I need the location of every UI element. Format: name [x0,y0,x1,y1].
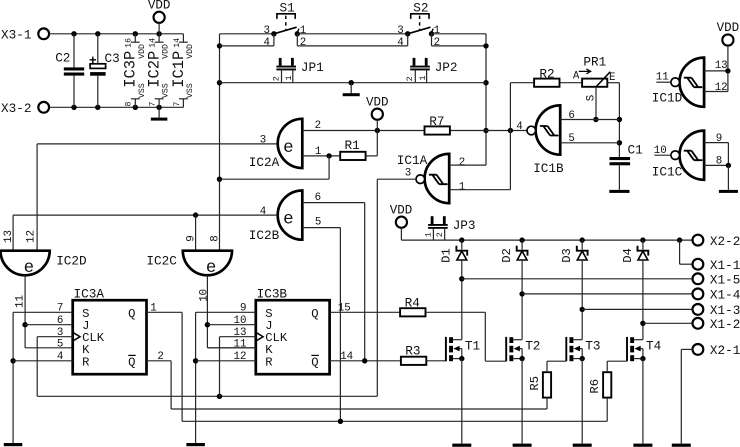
wire VDD rail top [49,33,183,35]
wire IC3B.Q row [330,311,400,313]
wire IC3A.CLK [37,337,377,397]
capacitor C2 [55,34,84,108]
svg-text:4: 4 [260,206,266,218]
svg-text:3: 3 [397,25,403,37]
flip-flop IC3A [57,287,164,375]
wire IC3B.J [208,324,256,326]
svg-text:3: 3 [405,167,411,179]
ground IC3A S/R net [4,443,23,446]
junction dot row421 [338,419,343,424]
ground below IC2P [151,107,168,120]
ground below IC1C [719,165,738,193]
svg-text:X1-2: X1-2 [710,317,740,332]
power VDD above JP3 [390,204,413,240]
svg-text:6: 6 [568,110,574,122]
junction dots row130 [375,128,514,133]
svg-text:R4: R4 [405,296,420,311]
svg-text:1: 1 [300,25,306,37]
wire IC3A.Qbar [147,361,547,409]
svg-text:A: A [573,70,580,82]
wire row1 right + column 486 [432,34,487,165]
svg-text:1: 1 [284,75,294,80]
transistor T4 [627,337,661,361]
switch S1 [264,0,307,49]
svg-text:IC2C: IC2C [146,253,177,268]
wire X1-1 drop [680,240,693,264]
svg-text:X2-1: X2-1 [710,343,740,358]
junction dots column 486 [483,43,488,133]
svg-text:2: 2 [435,232,445,237]
wire IC2C.9 down [195,215,197,267]
svg-text:7: 7 [149,102,158,107]
wire X1-2 row [640,321,692,326]
svg-text:e: e [283,138,294,158]
svg-text:IC1C: IC1C [652,165,683,180]
svg-text:1: 1 [434,25,440,37]
wire X1-5 row [459,276,692,281]
svg-text:IC2D: IC2D [56,253,86,268]
transistor T3 [566,337,600,361]
switch S2 [397,0,440,49]
svg-text:9: 9 [186,235,198,241]
svg-text:S2: S2 [413,0,428,15]
wire IC2A.1 row [302,155,340,157]
junction dots bottom rail [71,105,162,110]
jumper JP1 [271,58,323,83]
svg-text:IC2A: IC2A [249,155,280,170]
resistor R1 [340,138,365,160]
svg-text:X1-1: X1-1 [710,258,740,273]
wire T3 source gnd [573,359,592,447]
wire IC2D.11 out [22,275,72,348]
wire jumper row [220,82,487,84]
svg-text:8: 8 [210,235,222,241]
svg-text:4: 4 [397,37,403,49]
svg-text:IC2P: IC2P [146,51,164,88]
svg-text:T3: T3 [585,339,600,354]
terminal X2-2 [693,234,740,249]
nand IC1B [516,105,575,175]
svg-text:IC1A: IC1A [397,153,428,168]
svg-text:JP2: JP2 [435,60,458,75]
power pins IC2P [146,34,171,108]
svg-text:14: 14 [149,38,158,48]
wire IC1C.10 stub [654,154,670,156]
resistor R6 [588,361,627,421]
svg-text:VDD: VDD [366,95,389,109]
resistor R3 [401,344,426,365]
svg-text:VDD: VDD [148,0,171,13]
junction dots S1 column [217,43,222,182]
wire T1 source gnd [452,359,471,447]
svg-text:10: 10 [199,289,211,302]
ground IC3B S/R net [186,443,205,446]
svg-text:X1-4: X1-4 [710,288,740,303]
svg-text:R7: R7 [429,114,444,129]
svg-text:16: 16 [125,38,134,48]
wire X1-3 row [580,307,693,312]
wire IC3B.R [196,360,256,362]
transistor T2 [506,337,540,361]
resistor R5 [528,361,567,409]
wire IC2B.5 net [302,228,340,422]
terminal X1-4 [693,288,740,303]
svg-text:14: 14 [173,38,182,48]
svg-text:D4: D4 [621,248,635,263]
svg-text:X2-2: X2-2 [710,234,740,249]
wire T4 source gnd [633,359,652,447]
svg-text:IC1B: IC1B [533,161,564,176]
wire IC2C.10 out [205,275,256,348]
svg-text:2: 2 [300,37,306,49]
svg-text:C3: C3 [105,51,120,66]
svg-text:JP1: JP1 [301,60,324,75]
svg-text:D3: D3 [560,248,574,263]
diode D1 [440,240,467,340]
wire IC3B.K [207,347,255,349]
svg-text:R: R [265,355,272,369]
svg-text:11: 11 [234,339,247,351]
junction dot jumper row gnd [349,80,354,85]
nand IC2D [1,230,87,278]
svg-text:3: 3 [260,134,266,146]
nand IC2B [249,191,322,244]
diode D3 [560,240,588,340]
junction dots top rail [71,31,162,36]
ground at jumper row [343,83,360,97]
svg-text:T2: T2 [525,339,540,354]
svg-text:T4: T4 [646,339,661,354]
svg-text:S1: S1 [280,0,295,15]
junction dot R1 left [326,153,331,158]
junction dot CLK-B [217,394,222,399]
svg-text:e: e [24,258,35,278]
terminal X1-5 [693,273,740,288]
svg-text:3: 3 [264,25,270,37]
diode D4 [621,240,649,340]
svg-text:R3: R3 [405,344,420,359]
svg-text:12: 12 [25,230,37,243]
pin label IC2C.10 [199,289,211,302]
flip-flop IC3B [234,287,354,375]
wire IC2A out to left [37,143,278,145]
wire row2 segments [220,45,487,47]
junction dot IC2C.9 [193,212,198,217]
resistor R2 [510,67,582,87]
svg-text:R5: R5 [528,376,542,391]
wire PR1 E down [607,83,619,157]
wire T2 source gnd [513,359,532,447]
svg-text:2: 2 [434,37,440,49]
potentiometer PR1 [573,54,616,119]
svg-text:5: 5 [315,216,321,228]
svg-text:8: 8 [125,102,134,107]
wire IC1A.2 [449,164,486,166]
wire IC3A.R [13,360,73,362]
svg-text:Q: Q [128,307,135,321]
ground below C1 [609,165,629,193]
wire IC1A.1 [449,83,510,190]
wire IC1D.11 stub [656,81,670,83]
svg-text:X3-1: X3-1 [1,28,31,43]
wire IC1C inputs to gnd [704,143,731,168]
svg-text:VDD: VDD [390,204,413,218]
svg-text:5: 5 [57,339,63,351]
svg-text:IC2B: IC2B [249,228,280,243]
svg-text:VDD: VDD [717,21,740,35]
power VDD symbol top-left [148,0,171,34]
terminal X3-2 [1,101,49,116]
svg-text:D1: D1 [440,248,454,263]
terminal X1-2 [693,317,740,332]
terminal X3-1 [1,28,49,43]
svg-text:12: 12 [715,82,728,94]
svg-text:2: 2 [405,76,415,81]
junction dots rail [459,237,682,242]
terminal X1-1 [693,258,740,273]
svg-text:2: 2 [459,157,465,169]
svg-text:Q: Q [311,307,318,321]
svg-text:X3-2: X3-2 [1,101,31,116]
wire IC3B.S [193,312,256,443]
wire IC2A.3 down to IC2D.12 [36,144,38,268]
svg-text:2: 2 [271,76,281,81]
wire X2-1 to gnd [672,349,693,446]
svg-text:R2: R2 [539,67,554,82]
svg-text:Q: Q [311,355,318,369]
svg-text:1: 1 [418,75,428,80]
power pins IC3P [122,34,147,108]
svg-text:1: 1 [424,232,434,237]
wire IC1A.3 out [377,179,416,396]
wire net S1-left column [220,34,274,268]
resistor R7 [425,114,450,134]
wire X1-4 row [519,291,692,296]
wire R3 to T1 gate [426,360,446,362]
svg-text:4: 4 [264,37,270,49]
power pins IC1P [170,34,195,108]
svg-text:e: e [206,258,217,278]
wire IC2B.4 corner down to IC2D.13 [12,215,14,267]
wire IC3B.CLK [220,337,256,397]
svg-text:T1: T1 [465,339,480,354]
nand IC1A [397,153,465,203]
svg-text:IC3B: IC3B [257,287,288,302]
terminal X1-3 [693,303,740,318]
wire IC3A.Q [147,312,608,421]
wire IC1B.6 [560,119,619,121]
svg-text:X1-5: X1-5 [710,273,740,288]
wire R4 to T2 gate [426,312,507,361]
junction dots PR1 net [593,117,622,146]
nand IC2C [146,235,232,278]
svg-text:1: 1 [459,182,465,194]
wire VDD rail diodes [401,239,692,241]
svg-text:Q: Q [128,355,135,369]
wire IC3A.S [10,312,72,443]
wire VSS rail bottom [49,106,183,108]
svg-text:D2: D2 [500,248,514,263]
svg-text:X1-3: X1-3 [710,303,740,318]
svg-text:R6: R6 [588,379,602,394]
resistor R4 [400,296,425,317]
svg-text:IC1P: IC1P [170,51,188,88]
svg-text:11: 11 [14,295,26,308]
svg-text:IC3A: IC3A [74,287,105,302]
diode D2 [500,240,528,340]
capacitor C1 [610,143,643,166]
svg-text:JP3: JP3 [453,218,476,233]
jumper JP3 [424,216,476,240]
pin label IC2D.11 [14,295,26,308]
svg-text:R: R [82,355,89,369]
nand IC2A [249,119,322,170]
svg-text:C1: C1 [628,143,643,158]
nand IC1D [652,58,728,107]
svg-text:S: S [586,95,598,101]
nand IC1C [652,131,722,180]
wire row1 middle [297,33,407,35]
transistor T1 [446,337,480,361]
capacitor C3 polarized [90,34,120,108]
svg-text:4: 4 [516,121,522,133]
svg-text:13: 13 [3,230,15,243]
wire IC3B.Qbar row [330,360,401,362]
svg-text:7: 7 [173,102,182,107]
svg-text:e: e [283,210,294,230]
wire R1 right up [366,131,378,156]
svg-text:IC1D: IC1D [652,90,682,105]
wire IC3A.J [25,324,73,326]
svg-text:IC3P: IC3P [122,51,140,88]
junction dot Qbar-B [362,358,367,363]
jumper JP2 [405,58,457,83]
wire IC1B.5 [560,142,619,144]
svg-text:PR1: PR1 [583,54,606,69]
svg-text:C2: C2 [55,51,70,66]
power VDD above IC1D [717,21,740,71]
wire IC2A.1 loop left [220,156,330,179]
wire IC2B out row [13,214,278,216]
svg-text:R1: R1 [345,138,360,153]
terminal X2-1 [693,343,740,358]
wire IC1D inputs to VDD [704,68,731,91]
power VDD above row130 [366,95,389,130]
wire IC2B.6 net [302,203,364,361]
wire IC2A.2 row [302,130,527,132]
